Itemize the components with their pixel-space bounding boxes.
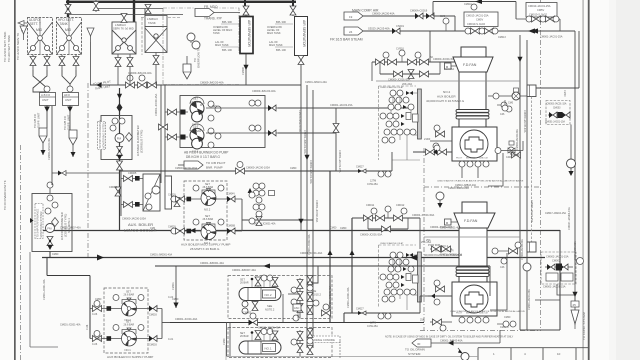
ship perf monitoring dashed box: [98, 122, 106, 150]
svg-text:BPL 100: BPL 100: [222, 48, 232, 52]
steam arrow right: [531, 28, 538, 33]
svg-text:CM00: CM00: [504, 316, 511, 319]
svg-text:TO OIL DRAIN: TO OIL DRAIN: [405, 348, 425, 352]
b1 drain loop: [490, 253, 507, 310]
relief arcs p2: [190, 97, 204, 131]
svg-text:FR 16.5 BAR STEAM: FR 16.5 BAR STEAM: [330, 38, 363, 42]
cooler core: [143, 174, 160, 211]
comp air hopper: [344, 12, 363, 20]
svg-text:20K-20A: 20K-20A: [402, 82, 412, 86]
svg-text:CM008: CM008: [109, 185, 118, 189]
pilot return x336: [335, 108, 337, 171]
svg-text:CM001-JM0601-40A: CM001-JM0601-40A: [329, 286, 332, 308]
fo fm black triangle: [30, 218, 34, 223]
svg-text:CM001-JMGO1-40A: CM001-JMGO1-40A: [303, 130, 307, 154]
b2 C46 circle: [502, 100, 508, 111]
svg-text:UNIT: UNIT: [65, 98, 72, 102]
b2 riser x330 long: [329, 171, 331, 322]
relief circles fo: [113, 295, 119, 301]
svg-text:CM001-JAC03-15A: CM001-JAC03-15A: [338, 150, 342, 173]
boiler2 front: [452, 127, 497, 161]
svg-text:CM012: CM012: [396, 203, 405, 207]
svg-text:FR. MDO: FR. MDO: [204, 5, 218, 9]
parallel pipe x313: [312, 90, 314, 348]
svg-text:MONITORING SYSTEM: MONITORING SYSTEM: [102, 123, 105, 149]
FR MDO TRANS hopper: [195, 9, 240, 17]
tank T4 MGO: [145, 16, 167, 53]
A.B FO unit box1: [40, 93, 56, 106]
t3 top valve: [121, 14, 127, 23]
unit frame: [180, 96, 265, 148]
module boundary dash-dot boiler2 left seg: [423, 148, 425, 187]
cooler inlet valves row2: [121, 202, 143, 208]
hdr y257 arrow right: [410, 255, 417, 261]
valve group B row: [465, 28, 498, 34]
heater feed valve y322: [249, 313, 258, 326]
svg-text:CM001-JM007-40A: CM001-JM007-40A: [60, 227, 81, 230]
svg-text:AIR SEPARATOR: AIR SEPARATOR: [302, 20, 306, 47]
steam hdr drop x430: [429, 31, 431, 62]
boiler1 burner insts: [459, 317, 489, 323]
svg-text:25: 25: [573, 303, 577, 307]
svg-text:MGO TANK: MGO TANK: [267, 31, 281, 35]
air separator no2 valve top: [290, 6, 296, 16]
svg-text:CM002-JMGO1-40A: CM002-JMGO1-40A: [309, 160, 313, 184]
main hdr y257: [42, 257, 545, 259]
manifold row1: [372, 50, 480, 65]
svg-text:CM06B: CM06B: [227, 225, 235, 228]
svg-text:TO ULSFO SERV. TK: TO ULSFO SERV. TK: [16, 33, 20, 60]
tank T1 ULSFO SETT: [28, 18, 53, 55]
fo out check f2: [136, 306, 162, 312]
boiler1 fo valves bottom: [430, 319, 452, 331]
fan1 trapezoid: [454, 213, 495, 228]
pilot line y108: [278, 107, 408, 109]
svg-text:CM6 CIX: CM6 CIX: [479, 158, 488, 160]
svg-text:ASC: ASC: [294, 306, 299, 310]
svg-text:NO.2: NO.2: [443, 90, 451, 94]
top header pipe thick: [66, 1, 296, 3]
boiler2 right circles: [497, 102, 512, 112]
svg-text:OVERFLOW TK: OVERFLOW TK: [197, 48, 201, 68]
svg-text:CM00 W ABOVE OF ABOVE AT ABOVE: CM00 W ABOVE OF ABOVE AT ABOVE OF BELOW …: [450, 310, 525, 313]
labels left of AS2: [267, 20, 286, 52]
svg-text:26.6 BAR: 26.6 BAR: [124, 294, 135, 297]
svg-text:24: 24: [349, 30, 353, 34]
relief inst left of box B: [440, 15, 449, 31]
svg-text:30: 30: [417, 342, 421, 346]
main line x119 lower: [119, 171, 121, 230]
svg-text:10: 10: [557, 352, 561, 356]
steam trace dashed: [531, 97, 533, 243]
T3 drain lines: [118, 54, 130, 85]
inlet valve m2: [170, 196, 201, 202]
fo fm diamond: [52, 218, 59, 227]
svg-text:CM000-JAC00-100A: CM000-JAC00-100A: [175, 167, 197, 170]
heater1 vessel: [239, 341, 281, 354]
svg-text:CM002-JAC01-15A: CM002-JAC01-15A: [546, 255, 569, 259]
pilot out check p1: [206, 125, 278, 136]
svg-text:26.6 BAR: 26.6 BAR: [203, 218, 214, 221]
svg-text:BNR. PUMP: BNR. PUMP: [206, 166, 223, 170]
mgo collector: [242, 199, 313, 231]
svg-text:CM010: CM010: [464, 3, 472, 6]
svg-text:CM001-JM0007-40A: CM001-JM0007-40A: [232, 268, 256, 272]
b1 mgo feed line y313: [344, 296, 428, 322]
valve group A row: [516, 16, 560, 31]
steam line arrow: [528, 28, 535, 33]
svg-text:CM000-JAC00-40A: CM000-JAC00-40A: [516, 129, 519, 150]
svg-text:26 BAR: 26 BAR: [240, 335, 249, 338]
b2 trap circle: [567, 125, 576, 177]
inst grid b2: [380, 90, 418, 143]
crossover lines: [33, 70, 76, 92]
manifold b1 row2: [368, 218, 408, 232]
heater1 dashed frame: [228, 328, 332, 358]
steam drop x575: [574, 31, 576, 283]
hopper down to C/B unit 1: [39, 128, 47, 155]
svg-text:CM001-JM0001-40A: CM001-JM0001-40A: [150, 254, 172, 257]
svg-text:CM02V: CM02V: [168, 194, 176, 197]
fo out collector: [162, 309, 170, 339]
heater2 drain pump: [242, 301, 258, 315]
funnel mid drop: [90, 42, 92, 85]
svg-text:M: M: [200, 104, 202, 107]
svg-text:CM02V: CM02V: [168, 226, 176, 229]
cluster dashed border b1: [378, 245, 380, 308]
heater2 top valves: [251, 275, 278, 287]
svg-text:NO.1: NO.1: [265, 346, 272, 350]
valve on riser x148: [145, 5, 151, 14]
black diamond on x119: [117, 103, 123, 112]
cooler side valve: [109, 185, 121, 196]
valve circle on b1 feed: [322, 304, 331, 316]
svg-text:CM001-JM0001-40A: CM001-JM0001-40A: [440, 254, 462, 257]
svg-text:MID: MID: [65, 28, 72, 32]
steam control rect b1: [527, 242, 536, 252]
T4 drain line: [155, 53, 157, 86]
comp air line y16: [362, 15, 455, 17]
svg-text:NO.2: NO.2: [265, 293, 272, 297]
fo fm valve: [47, 237, 53, 246]
flowmeter frame: [101, 116, 132, 160]
boiler1 economizer bars: [456, 267, 489, 276]
fan2 trapezoid: [453, 57, 493, 72]
hdr y257 arrow: [97, 255, 104, 261]
svg-text:AK: AK: [430, 56, 434, 59]
fo out check f1: [136, 336, 162, 342]
svg-text:CM003: CM003: [149, 314, 157, 317]
svg-text:PILOT: PILOT: [456, 158, 463, 160]
b1 riser x352 long: [351, 218, 353, 313]
b1 right link y300: [535, 299, 560, 301]
svg-text:C-06: C-06: [92, 313, 98, 316]
cooler inlet valves row1: [121, 176, 143, 182]
svg-text:CM5V: CM5V: [537, 8, 544, 12]
svg-text:CM00A-C0019: CM00A-C0019: [410, 9, 428, 13]
module dash at tanks: [141, 18, 143, 56]
pilot feed pair x161/165: [160, 85, 162, 183]
svg-text:CM000-JC001-50A: CM000-JC001-50A: [433, 57, 455, 61]
control bar b2: [418, 89, 422, 139]
instrument LS: [187, 33, 195, 43]
steam control rect: [527, 85, 536, 97]
svg-text:CM000-JAC00-100A: CM000-JAC00-100A: [122, 217, 146, 221]
boiler2 fo valves left: [430, 125, 452, 155]
svg-text:CM004H-JC0001-40A: CM004H-JC0001-40A: [252, 223, 276, 226]
svg-text:CM001-JM0001-40A: CM001-JM0001-40A: [200, 261, 224, 265]
inlet valve f2: [90, 301, 122, 312]
svg-text:CM5V: CM5V: [476, 18, 483, 22]
svg-text:CM001-JAC03-15A: CM001-JAC03-15A: [330, 103, 353, 107]
svg-text:CM000-JAC00-40A: CM000-JAC00-40A: [521, 239, 524, 260]
oil drain hopper: [412, 339, 500, 347]
inst grid b1: [380, 252, 418, 302]
svg-text:CM005: CM005: [243, 311, 252, 315]
heater1 valve stack right: [291, 330, 303, 356]
riser x245 to air separator no2: [244, 0, 246, 6]
hopper down to C/B unit 2: [69, 130, 77, 157]
svg-text:TO HFO SETT. TANK: TO HFO SETT. TANK: [7, 35, 11, 62]
svg-text:CV501: CV501: [396, 47, 404, 51]
tank T2 HFO SETT: [57, 18, 82, 55]
svg-text:C46: C46: [500, 266, 505, 269]
valve group box A (upper right): [526, 3, 557, 18]
mgo out check m1: [216, 228, 242, 234]
fo feed drop arrow: [173, 266, 178, 308]
manifold b1 drop: [419, 218, 421, 249]
svg-text:CM001-JC001-40A: CM001-JC001-40A: [347, 287, 350, 308]
omd1 valves: [545, 264, 573, 271]
more line labels: [60, 104, 511, 329]
manifold row2: [380, 62, 440, 79]
drain inst circle: [458, 348, 469, 360]
boiler2 duct: [459, 72, 486, 127]
svg-text:C-06: C-06: [86, 324, 89, 330]
fo unit feed vline: [51, 106, 53, 185]
svg-text:SYSTEM: SYSTEM: [408, 352, 421, 356]
OMD cluster b2: [546, 101, 570, 125]
svg-text:CM001-JC001-40A: CM001-JC001-40A: [258, 326, 280, 330]
svg-text:AUX BOILER FO SUPPLY PUMP: AUX BOILER FO SUPPLY PUMP: [107, 355, 153, 359]
svg-text:NOTE: IN CASE OF USING OF MGO: NOTE: IN CASE OF USING OF MGO IN CASE OF…: [385, 336, 514, 339]
svg-text:26 M3/H X 26 BAR.G: 26 M3/H X 26 BAR.G: [190, 247, 220, 251]
fo fm arrow: [47, 245, 53, 250]
fo fm drop to main: [49, 252, 51, 258]
labels left of AS1: [213, 20, 232, 52]
parallel pipe x307: [306, 85, 308, 348]
second main y266: [155, 264, 490, 297]
svg-text:CM000-JAC00-100A: CM000-JAC00-100A: [246, 166, 270, 170]
module boundary dash-dot boiler bottom y330: [420, 330, 540, 332]
svg-text:CM013-JAC01-25A: CM013-JAC01-25A: [528, 4, 551, 8]
FM circle: [115, 134, 124, 143]
fan2 silencer: [461, 47, 486, 57]
hdr y230 drop right x560: [559, 230, 561, 330]
heater2 extra fittings: [307, 276, 319, 315]
steam hopper: [344, 27, 363, 35]
svg-text:CM0: CM0: [150, 227, 156, 230]
svg-text:CM009-JMGO0-40A: CM009-JMGO0-40A: [252, 89, 276, 93]
pair valve above cooler: [159, 124, 168, 130]
omd1 inlet circle: [523, 263, 531, 271]
b2 drain loop: [488, 153, 503, 186]
svg-text:CM004-JC001-50A: CM004-JC001-50A: [412, 213, 434, 217]
svg-text:26 BAR: 26 BAR: [240, 282, 249, 285]
riser arrows: [328, 250, 355, 255]
svg-text:NOZZLE CONCIDE: NOZZLE CONCIDE: [312, 338, 335, 342]
fo unit feed hline y173: [52, 171, 120, 176]
svg-text:HFO: HFO: [64, 93, 71, 97]
svg-text:C46: C46: [500, 113, 505, 116]
hopper funnel mid: [87, 28, 94, 42]
svg-text:SEE NOTE 1: SEE NOTE 1: [68, 218, 71, 233]
air separator no1: [240, 17, 253, 54]
manifold stub to y81: [371, 62, 373, 81]
svg-text:19: 19: [349, 15, 353, 19]
instrument LAH: [192, 41, 200, 49]
cooler insts: [145, 193, 151, 199]
svg-text:A.B FO: A.B FO: [41, 93, 51, 97]
overflow hopper: [183, 56, 191, 79]
heater2 dashed frame: [228, 276, 332, 319]
svg-text:FM: FM: [47, 227, 52, 231]
heater2 out line: [288, 282, 313, 294]
svg-text:CM005: CM005: [128, 171, 137, 175]
hopper funnel left: [20, 26, 27, 40]
svg-text:SUPP. UNIT: SUPP. UNIT: [67, 114, 71, 130]
inlet valve f1: [90, 331, 122, 342]
fan1 feed circle: [436, 192, 444, 208]
svg-text:CM001-JC002-40A: CM001-JC002-40A: [308, 234, 311, 255]
fm inst pair2: [110, 125, 116, 131]
left drain vline x30: [29, 252, 31, 347]
heater2 valve stack right: [291, 278, 303, 318]
omd1 boxes: [546, 273, 573, 281]
svg-text:CM001-JC001-40A: CM001-JC001-40A: [175, 317, 197, 321]
CM010 inst above box B: [464, 3, 477, 10]
svg-text:BPL 300: BPL 300: [222, 20, 232, 24]
svg-text:CM001-JAC01-15A: CM001-JAC01-15A: [545, 121, 565, 124]
svg-text:CM004-JC001-40A: CM004-JC001-40A: [440, 227, 461, 230]
air separator no1 valve top: [243, 6, 249, 16]
unit dashed frame: [184, 181, 227, 240]
LSMGO hdr y85: [90, 84, 301, 86]
svg-text:CM001-JMGO1-40A: CM001-JMGO1-40A: [298, 110, 301, 132]
inst on border x580 y261: [577, 258, 584, 265]
svg-text:COW-25A: COW-25A: [367, 325, 378, 328]
boiler1 duct: [459, 228, 487, 282]
comp air riser to top: [432, 2, 434, 17]
cooler column: [165, 176, 172, 209]
heater drop pair: [227, 322, 231, 356]
svg-text:13.7 BAR: 13.7 BAR: [190, 129, 201, 133]
svg-text:CM000-JMGO0-40A: CM000-JMGO0-40A: [48, 138, 51, 160]
valve on riser x68: [65, 5, 71, 14]
svg-text:CM000-JC001-50A: CM000-JC001-50A: [360, 233, 382, 237]
right grey margin band: [615, 0, 640, 360]
fo fm insts: [47, 195, 53, 201]
steam line y31: [362, 30, 575, 32]
svg-text:CM00 W ABOVE OF AT: CM00 W ABOVE OF AT: [380, 242, 404, 245]
air separator no2: [295, 17, 308, 56]
b2 motor circles row: [488, 88, 527, 100]
svg-text:DB KG/H X 13.7 BAR.G: DB KG/H X 13.7 BAR.G: [186, 155, 221, 159]
cluster dashed border b2: [378, 86, 380, 160]
svg-text:BURNER: BURNER: [466, 158, 476, 160]
frame left border: [14, 0, 16, 360]
svg-text:CM013-JAC01-25A: CM013-JAC01-25A: [466, 14, 489, 18]
svg-text:CM047-JAM04-15A: CM047-JAM04-15A: [567, 207, 571, 230]
svg-text:FM: FM: [117, 137, 122, 141]
valve x336 y128: [333, 124, 339, 133]
b2 mgo feed line y171 extension: [336, 152, 392, 177]
svg-text:SUPP. UNIT: SUPP. UNIT: [37, 112, 41, 128]
module boundary dash-dot between boilers y187: [424, 186, 540, 188]
A.B FO unit box2: [63, 93, 79, 106]
tank outlet valves row: [30, 55, 79, 71]
svg-text:CM0: CM0: [508, 102, 514, 105]
steam valve: [392, 28, 400, 34]
svg-text:CM027: CM027: [356, 308, 364, 311]
boiler1 burner feed: [428, 280, 452, 305]
pow fdr valves: [430, 246, 452, 252]
svg-text:SEE: SEE: [267, 304, 272, 308]
fm inst pair: [112, 118, 118, 124]
inlet valve p1: [165, 134, 188, 140]
frame right main border: [588, 0, 590, 360]
supply run y275.5: [47, 275, 90, 277]
inlet valve m1: [170, 228, 201, 234]
module boundary dash-dot boiler column x540: [540, 0, 542, 331]
comp air valves: [415, 13, 434, 19]
mgo pressure control cluster: [248, 183, 275, 226]
svg-text:SETT. T: SETT. T: [30, 22, 42, 26]
valve on x119 y165: [117, 161, 123, 170]
pilot line y133: [278, 132, 336, 134]
inlet valve p2: [165, 109, 188, 115]
boiler2 pilot drop: [462, 167, 478, 178]
supply drop x47: [46, 257, 48, 276]
svg-text:CM010-S JAC0: CM010-S JAC0: [467, 22, 486, 26]
fm arrow: [117, 155, 123, 160]
svg-text:CM047-JAM04-15A: CM047-JAM04-15A: [545, 212, 566, 215]
module boundary dash-dot boiler1 left x424: [423, 187, 425, 330]
boiler1 front: [452, 282, 497, 316]
steam crossing line y237: [424, 236, 520, 238]
left border arrows top: [18, 21, 27, 26]
svg-text:CM002: CM002: [552, 259, 561, 263]
svg-text:TRANS. P/P: TRANS. P/P: [204, 17, 222, 21]
svg-text:TANK: TANK: [213, 31, 220, 35]
heater1 extra fittings: [307, 329, 313, 355]
svg-text:CM00: CM00: [95, 298, 102, 301]
pilot bnr hopper: [178, 161, 203, 169]
svg-text:F.D.FAN: F.D.FAN: [464, 219, 478, 223]
AS2 bottom valve: [298, 56, 304, 65]
svg-text:CM003-JAC01-15A: CM003-JAC01-15A: [547, 103, 567, 106]
svg-text:MID: MID: [36, 28, 43, 32]
pilot pump no2: [190, 101, 204, 126]
dash-dot region MDO: [163, 8, 239, 85]
unit outlet arrows: [44, 106, 73, 131]
control bar b1: [418, 252, 422, 302]
svg-text:V: V: [21, 29, 23, 33]
svg-text:MONITORING SYSTEM: MONITORING SYSTEM: [40, 212, 43, 238]
svg-text:CM011: CM011: [366, 203, 375, 207]
svg-text:CM001-JC001-40A: CM001-JC001-40A: [43, 279, 46, 300]
svg-text:CM001-JAC01-25A: CM001-JAC01-25A: [540, 35, 563, 39]
